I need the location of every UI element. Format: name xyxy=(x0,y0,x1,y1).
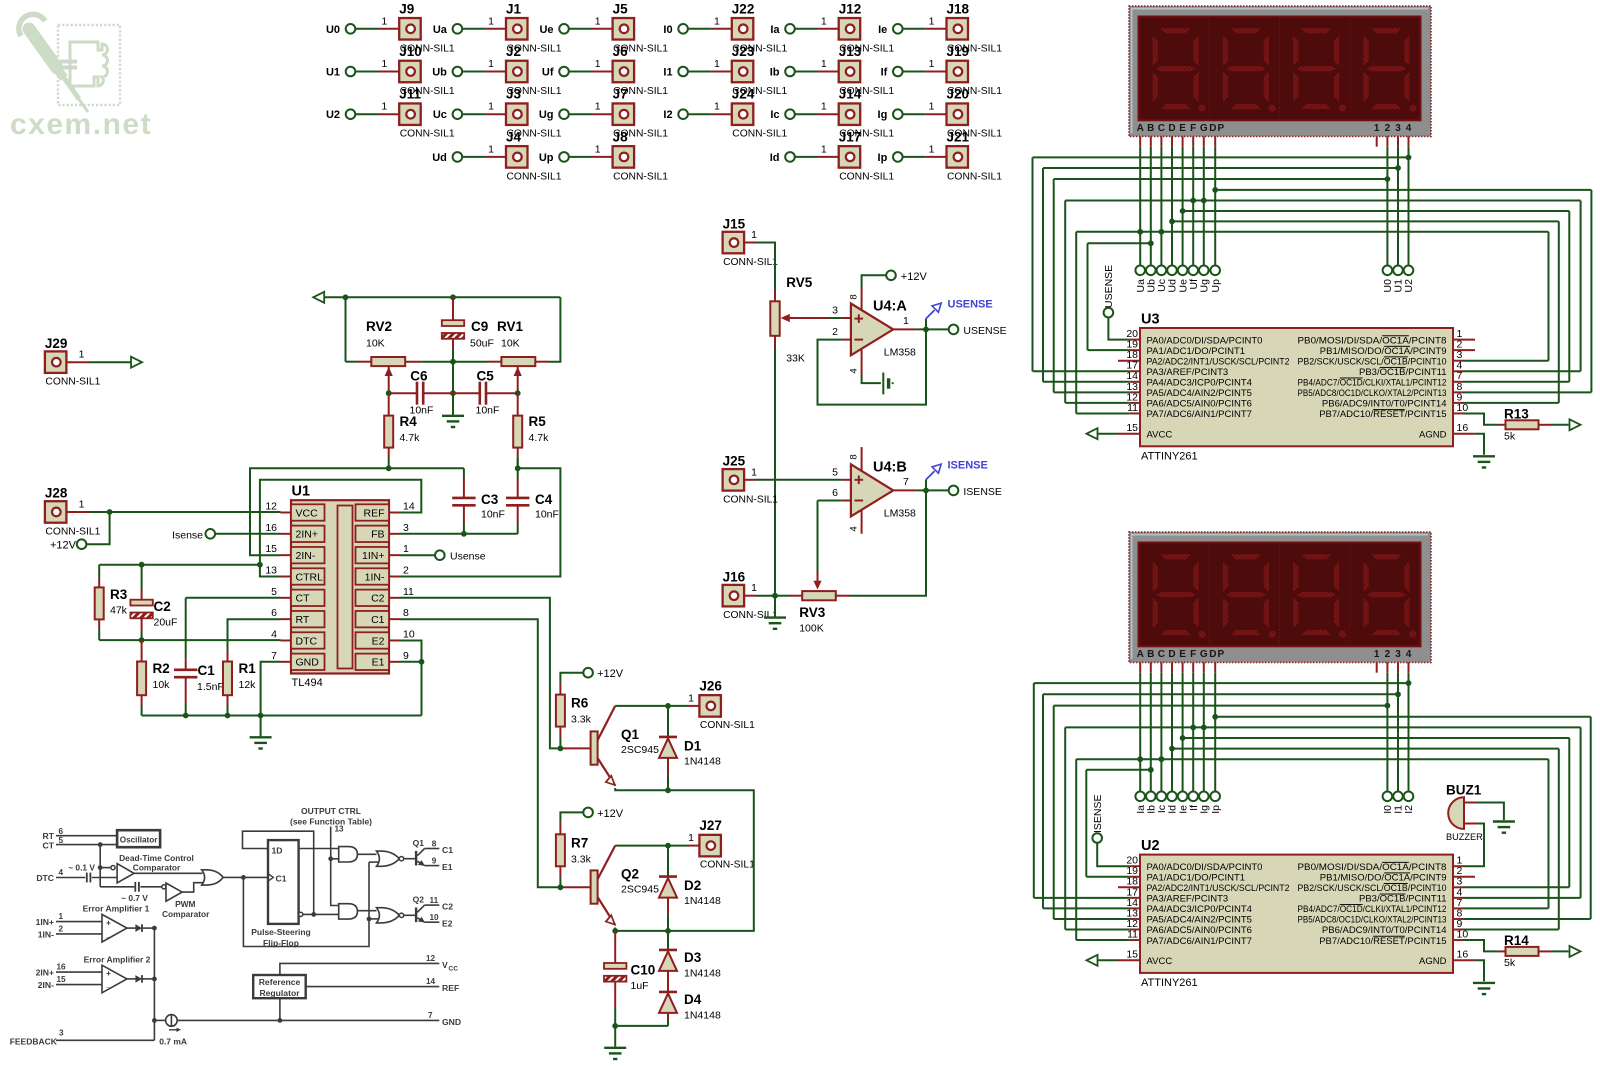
svg-text:8: 8 xyxy=(432,839,437,848)
svg-text:F: F xyxy=(1190,123,1196,134)
wire RV2 right to center node xyxy=(405,361,453,363)
svg-text:8: 8 xyxy=(849,454,860,459)
TL494 diagram: output transistor Q1 xyxy=(404,838,454,872)
wire U4:B pin 6 down to RV3 wiper xyxy=(813,501,841,590)
svg-text:Oscillator: Oscillator xyxy=(120,835,159,844)
connector J5 (CONN-SIL1) with terminal Ue xyxy=(539,1,668,54)
U3 AVCC left-arrow terminal pin 15 xyxy=(1087,428,1119,439)
svg-text:C2: C2 xyxy=(154,599,171,614)
svg-text:1: 1 xyxy=(751,466,757,478)
op-amp U4:A LM358 xyxy=(832,287,916,375)
svg-text:PB0/MOSI/DI/SDA/OC1A/PCINT8: PB0/MOSI/DI/SDA/OC1A/PCINT8 xyxy=(1298,862,1447,873)
svg-text:J6: J6 xyxy=(613,44,629,59)
buzzer BUZ1 xyxy=(1446,783,1483,843)
svg-text:Dead-Time Control: Dead-Time Control xyxy=(119,853,194,863)
svg-text:3: 3 xyxy=(59,1028,64,1037)
svg-text:F: F xyxy=(1190,649,1196,660)
svg-text:2SC945: 2SC945 xyxy=(621,884,659,896)
svg-text:15: 15 xyxy=(1126,422,1138,434)
svg-text:J25: J25 xyxy=(723,454,746,469)
svg-text:9: 9 xyxy=(432,856,437,865)
svg-text:J9: J9 xyxy=(399,1,414,16)
microcontroller U2 ATTINY261 xyxy=(1118,838,1475,989)
svg-text:4.7k: 4.7k xyxy=(529,432,550,444)
svg-text:I0: I0 xyxy=(663,24,672,36)
svg-text:CTRL: CTRL xyxy=(296,571,324,583)
svg-text:ISENSE: ISENSE xyxy=(948,460,988,472)
wire Q2 collector to J27 and D2 xyxy=(615,843,699,849)
svg-text:1: 1 xyxy=(929,15,935,27)
svg-text:1: 1 xyxy=(751,582,757,594)
svg-text:C10: C10 xyxy=(631,963,656,978)
svg-text:2: 2 xyxy=(832,326,838,338)
connector J26 (CONN-SIL1) xyxy=(688,678,755,731)
svg-text:1: 1 xyxy=(714,58,720,70)
svg-text:AVCC: AVCC xyxy=(1147,956,1173,967)
terminal +12V at R6 xyxy=(560,668,623,683)
capacitor C2 20uF electrolytic xyxy=(130,565,177,640)
wire center node down to ground with junctions xyxy=(450,359,456,415)
svg-text:Ug: Ug xyxy=(1199,279,1211,293)
svg-text:11: 11 xyxy=(430,896,439,905)
svg-text:PA1/ADC1/DO/PCINT1: PA1/ADC1/DO/PCINT1 xyxy=(1147,346,1246,357)
wire REF pin14 loop to CTRL pin13 xyxy=(257,480,421,577)
svg-text:RV2: RV2 xyxy=(366,319,392,334)
wire Q2 emitter bus with C10 junction xyxy=(612,928,671,934)
svg-text:PA5/ADC4/AIN2/PCINT5: PA5/ADC4/AIN2/PCINT5 xyxy=(1147,915,1252,926)
svg-text:C3: C3 xyxy=(481,492,499,507)
svg-text:15: 15 xyxy=(1126,949,1138,961)
svg-text:U4:A: U4:A xyxy=(873,299,907,315)
svg-text:2: 2 xyxy=(1385,123,1391,134)
svg-text:10K: 10K xyxy=(501,338,520,350)
svg-text:LM358: LM358 xyxy=(884,508,916,520)
svg-text:8: 8 xyxy=(403,607,409,619)
svg-text:C9: C9 xyxy=(471,319,488,334)
wire display2 bus line 5 xyxy=(1065,725,1580,930)
wire RV5 bottom to J16 node xyxy=(774,336,776,596)
svg-text:RV5: RV5 xyxy=(786,275,813,290)
svg-text:OUTPUT CTRL: OUTPUT CTRL xyxy=(301,806,361,816)
wire J25 to U4:B pin 5 xyxy=(755,479,842,481)
svg-text:REF: REF xyxy=(364,507,385,519)
svg-text:R6: R6 xyxy=(571,696,589,711)
svg-text:1: 1 xyxy=(595,143,601,155)
svg-text:Ip: Ip xyxy=(1210,805,1222,814)
svg-text:ISENSE: ISENSE xyxy=(963,486,1002,498)
svg-text:1N4148: 1N4148 xyxy=(684,755,721,767)
connector J13 (CONN-SIL1) with terminal Ib xyxy=(770,44,895,97)
svg-text:1: 1 xyxy=(79,499,85,511)
svg-text:1: 1 xyxy=(381,15,387,27)
capacitor C6 10nF xyxy=(389,369,453,417)
wire U4:B output down to RV3 right xyxy=(836,490,926,595)
svg-text:D3: D3 xyxy=(684,950,702,965)
connector J11 (CONN-SIL1) with terminal U2 xyxy=(326,87,455,140)
wire display2 bus line 3 xyxy=(1054,703,1391,919)
svg-text:15: 15 xyxy=(57,975,67,984)
connector J4 (CONN-SIL1) with terminal Ud xyxy=(432,129,561,182)
TL494 diagram: Error Amplifier 2 xyxy=(36,954,151,993)
svg-text:A: A xyxy=(1137,123,1144,134)
svg-text:Ig: Ig xyxy=(1199,805,1211,814)
svg-text:J12: J12 xyxy=(839,1,862,16)
svg-text:PB5/ADC8/OC1D/CLKO/XTAL2/PCINT: PB5/ADC8/OC1D/CLKO/XTAL2/PCINT13 xyxy=(1298,915,1447,926)
svg-text:J24: J24 xyxy=(732,87,755,102)
svg-text:5k: 5k xyxy=(1504,430,1516,442)
wire display2 bus line 2 xyxy=(1043,691,1401,908)
svg-text:J26: J26 xyxy=(699,678,722,693)
wire J28 to U1 pin 12 (VCC) xyxy=(90,509,281,515)
svg-text:C1: C1 xyxy=(371,614,385,626)
svg-text:J28: J28 xyxy=(45,486,68,501)
resistor R4 4.7k xyxy=(384,393,420,468)
terminal ISENSE above U2 pin 20 xyxy=(1092,794,1130,866)
svg-text:4: 4 xyxy=(1406,123,1412,134)
svg-text:+12V: +12V xyxy=(50,540,77,552)
terminals Ua-Up and U0-U2 under display1 xyxy=(1135,266,1415,293)
connector J9 (CONN-SIL1) with terminal U0 xyxy=(326,1,455,54)
svg-text:AGND: AGND xyxy=(1419,956,1447,967)
svg-text:I2: I2 xyxy=(1403,805,1415,814)
connector J20 (CONN-SIL1) with terminal Ig xyxy=(878,87,1003,140)
svg-text:D1: D1 xyxy=(684,738,702,753)
svg-text:C: C xyxy=(1158,649,1165,660)
potentiometer RV5 33K with wiper arrow to U4:A pin 3 xyxy=(770,275,830,365)
wire display1 bus line 9 xyxy=(1088,240,1154,350)
ground below C10 xyxy=(604,1048,626,1059)
wire display2 bus line 6 xyxy=(1180,735,1570,887)
svg-text:10nF: 10nF xyxy=(481,509,505,521)
svg-text:ATTINY261: ATTINY261 xyxy=(1141,451,1198,463)
svg-text:I2: I2 xyxy=(663,109,672,121)
svg-text:U2: U2 xyxy=(1141,838,1160,854)
svg-text:8: 8 xyxy=(849,294,860,299)
svg-text:Ic: Ic xyxy=(770,109,779,121)
svg-text:Up: Up xyxy=(1210,279,1222,293)
svg-text:AGND: AGND xyxy=(1419,429,1447,440)
svg-text:7: 7 xyxy=(271,650,277,662)
svg-text:16: 16 xyxy=(1457,422,1469,434)
svg-text:12: 12 xyxy=(265,501,277,513)
svg-text:1: 1 xyxy=(714,101,720,113)
svg-text:1N4148: 1N4148 xyxy=(684,895,721,907)
TL494 diagram: Error Amplifier 1 xyxy=(36,903,150,942)
7-segment display DISP1 (top) xyxy=(1129,6,1431,147)
wire U1 ground bus xyxy=(142,713,422,719)
connector J10 (CONN-SIL1) with terminal U1 xyxy=(326,44,455,97)
svg-text:J11: J11 xyxy=(399,87,421,102)
svg-text:R13: R13 xyxy=(1504,406,1529,421)
svg-text:20uF: 20uF xyxy=(154,617,178,629)
svg-text:RV3: RV3 xyxy=(799,605,826,620)
svg-text:2: 2 xyxy=(1385,649,1391,660)
svg-text:GND: GND xyxy=(442,1017,461,1027)
svg-text:1: 1 xyxy=(595,101,601,113)
TL494 diagram: GND line pin 7 xyxy=(177,1011,461,1027)
svg-text:I1: I1 xyxy=(663,67,672,79)
svg-text:1: 1 xyxy=(929,101,935,113)
svg-text:1: 1 xyxy=(1374,649,1380,660)
svg-text:D: D xyxy=(1168,649,1175,660)
svg-text:PB3/OC1B/PCINT11: PB3/OC1B/PCINT11 xyxy=(1359,894,1447,905)
svg-text:1: 1 xyxy=(821,101,827,113)
svg-text:J18: J18 xyxy=(947,1,970,16)
svg-text:~ 0.1 V: ~ 0.1 V xyxy=(68,863,95,873)
svg-text:6: 6 xyxy=(832,487,838,499)
connector J27 (CONN-SIL1) xyxy=(688,818,755,871)
U2 AVCC left-arrow terminal pin 15 xyxy=(1087,955,1119,966)
TL494 diagram: EA2 diode to bus xyxy=(127,975,157,983)
resistor R1 12k xyxy=(223,650,256,716)
terminal +12V at R7 xyxy=(560,808,623,823)
svg-text:_: _ xyxy=(105,928,111,938)
svg-text:AVCC: AVCC xyxy=(1147,429,1173,440)
svg-text:100K: 100K xyxy=(799,623,824,635)
svg-text:10K: 10K xyxy=(366,338,385,350)
svg-text:Ud: Ud xyxy=(432,152,447,164)
connector J19 (CONN-SIL1) with terminal If xyxy=(881,44,1003,97)
terminal Usense at U1 pin 1 xyxy=(400,550,486,562)
connector J15 (CONN-SIL1) xyxy=(723,216,779,268)
TL494 diagram: DTC input with cap xyxy=(36,863,117,883)
svg-text:6: 6 xyxy=(271,607,277,619)
svg-text:J15: J15 xyxy=(723,216,746,231)
svg-text:1: 1 xyxy=(1374,123,1380,134)
svg-text:J23: J23 xyxy=(732,44,755,59)
wire U4:B output to ISENSE terminal xyxy=(916,486,1002,498)
svg-text:1: 1 xyxy=(751,229,757,241)
svg-text:2IN-: 2IN- xyxy=(38,980,54,990)
TL494 diagram: Pulse-Steering Flip-Flop box xyxy=(251,840,311,948)
svg-text:+12V: +12V xyxy=(597,808,624,820)
connector J1 (CONN-SIL1) with terminal Ua xyxy=(433,1,562,54)
svg-text:D4: D4 xyxy=(684,992,702,1007)
wire U1 pin 3 FB to C3/C4 bottoms xyxy=(400,531,518,537)
svg-text:Up: Up xyxy=(539,152,554,164)
svg-text:+: + xyxy=(106,968,111,978)
transistor Q2 2SC945 xyxy=(558,846,660,925)
svg-text:G: G xyxy=(1200,649,1208,660)
svg-text:R4: R4 xyxy=(400,414,418,429)
svg-text:CT: CT xyxy=(296,593,311,605)
wire U4:A pin 8 to +12V terminal xyxy=(862,271,928,288)
svg-text:47k: 47k xyxy=(110,605,128,617)
svg-text:10k: 10k xyxy=(153,679,171,691)
svg-text:0.7 mA: 0.7 mA xyxy=(159,1037,187,1047)
svg-text:PB1/MISO/DO/OC1A/PCINT9: PB1/MISO/DO/OC1A/PCINT9 xyxy=(1320,872,1447,883)
svg-text:RT: RT xyxy=(296,614,310,626)
svg-text:GND: GND xyxy=(296,657,320,669)
svg-text:Usense: Usense xyxy=(450,551,486,563)
svg-text:4: 4 xyxy=(271,628,277,640)
svg-text:VCC: VCC xyxy=(296,507,319,519)
svg-text:C4: C4 xyxy=(535,492,553,507)
svg-text:J27: J27 xyxy=(699,818,722,833)
svg-text:PB4/ADC7/OC1D/CLKI/XTAL1/PCINT: PB4/ADC7/OC1D/CLKI/XTAL1/PCINT12 xyxy=(1298,378,1447,389)
svg-text:CONN-SIL1: CONN-SIL1 xyxy=(45,527,100,538)
svg-text:CONN-SIL1: CONN-SIL1 xyxy=(732,129,787,140)
svg-text:R14: R14 xyxy=(1504,933,1529,948)
TL494 diagram: output control cross feedback xyxy=(243,862,371,946)
svg-text:2SC945: 2SC945 xyxy=(621,744,659,756)
svg-text:2IN+: 2IN+ xyxy=(296,529,318,541)
TL494 diagram: OUTPUT CTRL line 13 xyxy=(290,806,372,906)
svg-text:CONN-SIL1: CONN-SIL1 xyxy=(400,129,455,140)
svg-text:Ub: Ub xyxy=(432,67,447,79)
svg-text:Uc: Uc xyxy=(433,109,447,121)
svg-text:12: 12 xyxy=(426,954,436,963)
svg-text:USENSE: USENSE xyxy=(948,299,993,311)
connector J17 (CONN-SIL1) with terminal Id xyxy=(770,129,895,182)
svg-text:A: A xyxy=(1137,649,1144,660)
wire display1 bus line 8 xyxy=(1076,229,1548,414)
svg-text:U1: U1 xyxy=(292,484,311,500)
svg-text:E: E xyxy=(1179,123,1186,134)
wire E2/E1 pins to ground bus xyxy=(400,641,425,716)
TL494 diagram: Reference Regulator block xyxy=(253,975,306,1020)
wire display1 bus line 4 xyxy=(1212,187,1591,392)
wire display2 bus line 1 xyxy=(1034,680,1412,898)
svg-text:DP: DP xyxy=(1209,123,1225,134)
svg-text:J22: J22 xyxy=(732,1,755,16)
ground below J16 node xyxy=(764,596,786,629)
capacitor C9 50uF electrolytic xyxy=(442,297,494,361)
svg-text:R3: R3 xyxy=(110,587,128,602)
svg-text:10nF: 10nF xyxy=(476,405,500,417)
svg-text:J16: J16 xyxy=(723,569,746,584)
svg-text:_: _ xyxy=(105,979,111,989)
TL494 diagram: NOR gate 1 xyxy=(357,851,403,866)
cxem.net watermark logo xyxy=(10,14,152,141)
svg-text:1: 1 xyxy=(821,58,827,70)
svg-text:Reference: Reference xyxy=(259,977,301,987)
svg-text:5: 5 xyxy=(59,836,64,845)
svg-text:3: 3 xyxy=(832,305,838,317)
TL494 diagram: comparator OR gate xyxy=(134,870,223,892)
svg-text:1: 1 xyxy=(595,58,601,70)
svg-text:1: 1 xyxy=(929,143,935,155)
svg-text:RV1: RV1 xyxy=(497,319,524,334)
capacitor C1 1.5nF xyxy=(174,598,224,716)
svg-text:1: 1 xyxy=(821,15,827,27)
svg-text:3: 3 xyxy=(403,522,409,534)
svg-text:BUZZER: BUZZER xyxy=(1446,832,1483,842)
svg-text:4: 4 xyxy=(849,526,860,531)
connector J24 (CONN-SIL1) with terminal I2 xyxy=(663,87,787,140)
svg-text:1: 1 xyxy=(903,315,909,327)
wire divider rail R4-bottom to C3 and U1 pin 15 loop xyxy=(250,465,464,555)
svg-text:R5: R5 xyxy=(529,414,547,429)
svg-text:J8: J8 xyxy=(613,129,629,144)
svg-text:+12V: +12V xyxy=(597,668,624,680)
svg-text:CONN-SIL1: CONN-SIL1 xyxy=(507,171,562,182)
connector J2 (CONN-SIL1) with terminal Ub xyxy=(432,44,561,97)
svg-text:1: 1 xyxy=(59,912,64,921)
wire display1 bus line 7 xyxy=(1169,219,1559,403)
svg-text:Id: Id xyxy=(770,152,780,164)
svg-text:3: 3 xyxy=(1395,123,1401,134)
svg-text:CONN-SIL1: CONN-SIL1 xyxy=(839,171,894,182)
wire CT pin5 to C1-top xyxy=(186,597,281,599)
svg-text:If: If xyxy=(881,67,888,79)
svg-text:1: 1 xyxy=(488,143,494,155)
svg-text:Q2: Q2 xyxy=(413,894,425,904)
connector J8 (CONN-SIL1) with terminal Up xyxy=(539,129,668,182)
svg-text:+: + xyxy=(106,917,111,927)
wire U4:A feedback output to pin 2 xyxy=(818,329,927,404)
svg-text:~ 0.7 V: ~ 0.7 V xyxy=(121,893,148,903)
svg-text:1N4148: 1N4148 xyxy=(684,1010,721,1022)
svg-text:1: 1 xyxy=(403,543,409,555)
svg-text:16: 16 xyxy=(1457,949,1469,961)
potentiometer RV2 10K with wiper arrow xyxy=(366,319,405,393)
resistor R3 47k xyxy=(95,565,128,640)
svg-text:(see Function Table): (see Function Table) xyxy=(290,817,372,827)
TL494 diagram: Oscillator block xyxy=(117,830,160,847)
svg-text:PB2/SCK/USCK/SCL/OC1B/PCINT10: PB2/SCK/USCK/SCL/OC1B/PCINT10 xyxy=(1298,883,1447,894)
connector J14 (CONN-SIL1) with terminal Ic xyxy=(770,87,894,140)
svg-text:B: B xyxy=(1147,123,1154,134)
svg-text:5: 5 xyxy=(271,586,277,598)
svg-text:J10: J10 xyxy=(399,44,422,59)
wire J15 down to RV5 xyxy=(755,243,775,302)
svg-text:1: 1 xyxy=(688,832,694,844)
svg-text:13: 13 xyxy=(265,564,277,576)
connector J16 (CONN-SIL1) xyxy=(723,569,779,621)
wires: display2 pin verticals xyxy=(1140,673,1408,792)
svg-text:Comparator: Comparator xyxy=(133,863,181,873)
svg-text:4: 4 xyxy=(1406,649,1412,660)
capacitor C5 10nF xyxy=(453,369,518,417)
svg-text:1: 1 xyxy=(381,101,387,113)
svg-text:J1: J1 xyxy=(506,1,522,16)
svg-text:C6: C6 xyxy=(410,369,428,384)
resistor R13 5k with right-arrow terminal xyxy=(1464,406,1581,442)
svg-text:Q1: Q1 xyxy=(413,838,425,848)
svg-text:E1: E1 xyxy=(372,657,385,669)
svg-text:PA0/ADC0/DI/SDA/PCINT0: PA0/ADC0/DI/SDA/PCINT0 xyxy=(1147,335,1263,346)
svg-text:1: 1 xyxy=(688,692,694,704)
svg-text:FEEDBACK: FEEDBACK xyxy=(10,1037,58,1047)
svg-text:J3: J3 xyxy=(506,87,522,102)
svg-text:U4:B: U4:B xyxy=(873,460,907,476)
svg-text:PB7/ADC10/RESET/PCINT15: PB7/ADC10/RESET/PCINT15 xyxy=(1319,409,1446,420)
svg-text:Q2: Q2 xyxy=(621,867,639,882)
wire DTC pin4 to R3-bottom/R2-top xyxy=(99,637,280,643)
TL494 diagram: REF line pin 14 xyxy=(306,977,459,993)
svg-text:Ie: Ie xyxy=(878,24,887,36)
wires: display1 pin verticals xyxy=(1140,147,1408,266)
svg-text:6: 6 xyxy=(59,827,64,836)
svg-text:ATTINY261: ATTINY261 xyxy=(1141,977,1198,989)
svg-text:CONN-SIL1: CONN-SIL1 xyxy=(723,610,778,621)
svg-text:RT: RT xyxy=(43,831,55,841)
wire RV3 left to J16 node xyxy=(772,593,802,599)
svg-text:R2: R2 xyxy=(153,661,170,676)
svg-text:CT: CT xyxy=(43,841,55,851)
svg-text:C: C xyxy=(1158,123,1165,134)
svg-text:PB2/SCK/USCK/SCL/OC1B/PCINT10: PB2/SCK/USCK/SCL/OC1B/PCINT10 xyxy=(1298,356,1447,367)
svg-text:PA4/ADC3/ICP0/PCINT4: PA4/ADC3/ICP0/PCINT4 xyxy=(1147,378,1252,389)
wire GND pin7 down to bus xyxy=(261,662,281,737)
svg-text:1: 1 xyxy=(714,15,720,27)
resistor R5 4.7k xyxy=(513,393,549,468)
svg-text:Uf: Uf xyxy=(542,67,554,79)
svg-text:PB3/OC1B/PCINT11: PB3/OC1B/PCINT11 xyxy=(1359,367,1447,378)
svg-text:USENSE: USENSE xyxy=(963,325,1006,337)
TL494 diagram: Dead-Time Control Comparator xyxy=(98,845,194,887)
